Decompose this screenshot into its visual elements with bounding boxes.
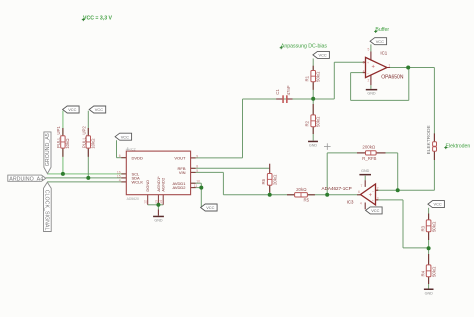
svg-text:WCLK: WCLK xyxy=(132,180,144,185)
svg-text:2: 2 xyxy=(377,186,379,190)
svg-text:Anpassung DC-bias: Anpassung DC-bias xyxy=(281,43,328,49)
svg-text:7: 7 xyxy=(360,184,362,188)
svg-text:OPA650N: OPA650N xyxy=(381,74,404,80)
svg-text:IC1: IC1 xyxy=(380,51,387,56)
svg-text:1: 1 xyxy=(388,64,390,68)
svg-text:10kΩ: 10kΩ xyxy=(90,138,95,149)
svg-text:IC2: IC2 xyxy=(131,147,136,151)
svg-text:R4: R4 xyxy=(421,270,426,276)
svg-text:VCC: VCC xyxy=(376,39,384,44)
svg-text:GND: GND xyxy=(309,144,318,148)
svg-text:20kΩ: 20kΩ xyxy=(296,187,307,192)
svg-text:IC3: IC3 xyxy=(347,199,354,204)
svg-text:AGND2: AGND2 xyxy=(160,177,165,192)
svg-text:VCC = 3,3 V: VCC = 3,3 V xyxy=(83,15,113,21)
svg-text:50kΩ: 50kΩ xyxy=(316,116,321,127)
svg-text:11: 11 xyxy=(194,184,198,188)
svg-text:DVDD: DVDD xyxy=(132,155,143,160)
svg-text:PULL_UP1: PULL_UP1 xyxy=(56,126,61,149)
svg-text:AVDD2: AVDD2 xyxy=(172,185,186,190)
svg-text:ELEKTRODE: ELEKTRODE xyxy=(426,125,432,154)
svg-text:C1: C1 xyxy=(275,89,280,95)
svg-text:200kΩ: 200kΩ xyxy=(362,144,376,149)
svg-text:12: 12 xyxy=(144,200,148,204)
svg-text:4: 4 xyxy=(119,178,121,182)
svg-text:20kΩ: 20kΩ xyxy=(272,174,277,185)
svg-text:CLOCK_SIGNAL: CLOCK_SIGNAL xyxy=(44,190,50,231)
svg-text:VCC: VCC xyxy=(319,53,327,58)
svg-text:AD5620: AD5620 xyxy=(127,197,139,201)
svg-text:6: 6 xyxy=(119,154,121,158)
svg-text:+: + xyxy=(372,199,374,203)
svg-text:VIN: VIN xyxy=(179,170,186,175)
svg-text:50kΩ: 50kΩ xyxy=(432,266,437,277)
svg-text:4: 4 xyxy=(360,201,362,205)
svg-text:–: – xyxy=(367,71,369,75)
svg-text:DGND: DGND xyxy=(145,180,150,192)
svg-text:3: 3 xyxy=(363,61,365,65)
svg-text:+: + xyxy=(367,61,369,65)
svg-text:ARDUINO_A4: ARDUINO_A4 xyxy=(9,176,43,182)
svg-text:10kΩ: 10kΩ xyxy=(65,138,70,149)
svg-text:10: 10 xyxy=(196,180,200,184)
svg-text:VCC: VCC xyxy=(434,202,442,207)
svg-text:13: 13 xyxy=(154,200,158,204)
svg-text:50kΩ: 50kΩ xyxy=(432,221,437,232)
svg-text:GROUND_A5: GROUND_A5 xyxy=(45,133,51,166)
svg-text:5: 5 xyxy=(367,47,369,51)
svg-text:VCC: VCC xyxy=(371,208,379,213)
svg-text:GND: GND xyxy=(154,219,163,223)
svg-text:47nF: 47nF xyxy=(286,85,291,95)
svg-text:R1: R1 xyxy=(305,75,310,81)
svg-text:R2: R2 xyxy=(305,120,310,126)
svg-text:GND: GND xyxy=(367,92,376,96)
svg-text:14: 14 xyxy=(159,200,163,204)
svg-text:ADA4627-1CP: ADA4627-1CP xyxy=(322,186,352,191)
svg-text:2: 2 xyxy=(367,79,369,83)
svg-text:GND: GND xyxy=(361,169,370,173)
svg-text:GND: GND xyxy=(425,291,434,295)
svg-text:6: 6 xyxy=(358,190,360,194)
svg-text:R5: R5 xyxy=(303,197,309,202)
svg-text:VCC: VCC xyxy=(68,107,76,112)
svg-text:4: 4 xyxy=(363,69,365,73)
svg-text:3: 3 xyxy=(377,196,379,200)
svg-text:VCC: VCC xyxy=(95,107,103,112)
svg-text:5: 5 xyxy=(196,169,198,173)
svg-text:R_RFB: R_RFB xyxy=(362,156,376,161)
svg-text:50kΩ: 50kΩ xyxy=(316,71,321,82)
svg-text:VCC: VCC xyxy=(206,205,214,210)
svg-text:VOUT: VOUT xyxy=(174,156,186,161)
svg-text:R6: R6 xyxy=(261,178,266,184)
svg-text:PULL_UP2: PULL_UP2 xyxy=(81,126,86,149)
svg-text:R3: R3 xyxy=(421,225,426,231)
svg-text:–: – xyxy=(372,189,374,193)
svg-text:VCC: VCC xyxy=(121,134,129,139)
svg-text:Elektroden: Elektroden xyxy=(446,143,471,149)
svg-text:9: 9 xyxy=(196,154,198,158)
svg-text:Buffer: Buffer xyxy=(375,27,389,33)
